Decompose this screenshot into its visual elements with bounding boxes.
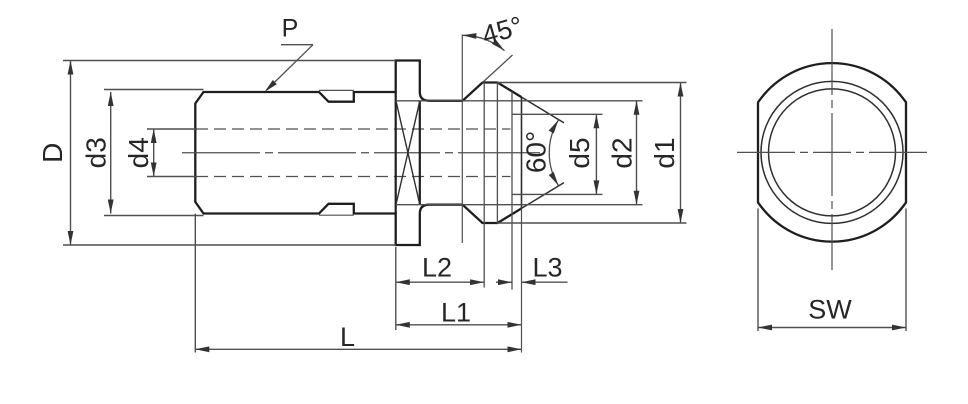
dimension d2: [396, 100, 643, 102]
head edge line / L3 extension / d5 feature x=512: [511, 92, 513, 290]
dimension d3: [104, 89, 204, 91]
pull stud side view: body outline: [195, 61, 521, 246]
svg-text:L: L: [340, 322, 355, 352]
thread crest line over groove top: [319, 89, 354, 91]
bottom extension lines: [194, 214, 196, 353]
flange cross line 2: [396, 101, 420, 205]
flange cross line 1: [396, 101, 420, 205]
dimension L3: [496, 281, 512, 283]
thread root dashed line top: [196, 128, 511, 130]
svg-text:d2: d2: [606, 137, 637, 168]
flange right edge mid segment: [419, 101, 421, 205]
svg-text:SW: SW: [808, 294, 852, 324]
dimension d4: [147, 128, 197, 130]
svg-text:L3: L3: [532, 253, 562, 283]
svg-text:L1: L1: [441, 297, 471, 327]
dimension d5: [512, 113, 603, 115]
svg-text:d3: d3: [81, 137, 112, 168]
dimension SW: [757, 209, 759, 332]
flange left edge mid segment: [395, 92, 397, 214]
dimension d1: [497, 82, 687, 84]
end view vertical centerline: [831, 29, 833, 270]
svg-text:d4: d4: [123, 137, 154, 168]
end view horizontal centerline: [737, 151, 927, 153]
45 deg chamfer extension line: [483, 55, 513, 83]
end view outer profile with wrench flats: [758, 63, 906, 241]
svg-text:d5: d5: [564, 137, 595, 168]
45 deg vertical reference line: [461, 35, 463, 244]
dimension L2: [396, 281, 484, 283]
thread crest line over groove bottom: [319, 214, 354, 216]
60 deg cone extension top: [522, 97, 565, 123]
thread root dashed line bottom: [196, 176, 511, 178]
dimension L: [195, 348, 521, 350]
60 deg angle dimension: [549, 120, 558, 186]
60 deg cone extension bottom: [522, 183, 565, 209]
head end face: [521, 97, 523, 208]
centerline side view: [182, 152, 540, 154]
head edge line / L2 extension x=484: [483, 83, 485, 288]
end view circle d1: [761, 81, 903, 223]
45 deg angle dimension: [462, 35, 504, 50]
svg-text:P: P: [282, 15, 299, 43]
dimension D: [63, 60, 396, 62]
svg-text:d1: d1: [649, 137, 680, 168]
svg-text:L2: L2: [422, 253, 452, 283]
end view inner circle: [769, 89, 896, 216]
dimension L1: [396, 324, 522, 326]
svg-text:D: D: [37, 143, 68, 163]
head edge line x=497.4: [496, 83, 498, 224]
end face extension line down: [521, 208, 523, 352]
svg-text:60°: 60°: [521, 131, 552, 173]
